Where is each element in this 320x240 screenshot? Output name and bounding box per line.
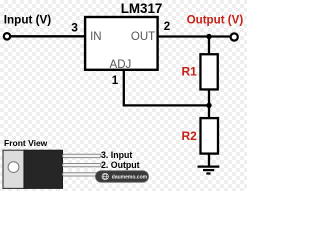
svg-text:ADJ: ADJ	[110, 59, 132, 71]
input terminal	[4, 33, 10, 39]
svg-text:2: 2	[164, 21, 170, 33]
resistor R2	[201, 118, 219, 154]
svg-text:3: 3	[71, 21, 78, 35]
ground	[198, 167, 220, 174]
wire ADJ pin down and right to divider node	[124, 70, 209, 106]
output terminal	[231, 33, 238, 40]
TO-220 pin 2 lead	[63, 164, 102, 167]
svg-text:daumemo.com: daumemo.com	[112, 174, 148, 180]
svg-text:OUT: OUT	[131, 31, 155, 43]
TO-220 package tab	[3, 150, 24, 188]
svg-text:1: 1	[112, 75, 119, 87]
svg-text:R1: R1	[181, 65, 197, 79]
svg-text:R2: R2	[181, 129, 197, 143]
wire OUT pin to output terminal	[158, 35, 230, 37]
resistor R1	[200, 54, 217, 89]
svg-text:IN: IN	[90, 31, 102, 43]
wire input to IN pin	[11, 35, 85, 37]
TO-220 pin 1 lead	[63, 173, 102, 176]
TO-220 package body	[24, 150, 63, 188]
TO-220 mounting hole	[8, 162, 19, 173]
svg-text:Front View: Front View	[4, 138, 48, 148]
node ADJ junction	[206, 103, 211, 108]
svg-text:Output (V): Output (V)	[187, 14, 244, 27]
svg-text:LM317: LM317	[121, 1, 163, 16]
svg-text:3. Input: 3. Input	[101, 150, 132, 160]
svg-text:Input (V): Input (V)	[4, 14, 51, 27]
watermark badge daumemo.com	[96, 171, 149, 182]
TO-220 pin 3 lead	[63, 154, 102, 157]
node output junction	[206, 34, 211, 39]
wire output branch down through R1 R2 to ground	[208, 37, 210, 167]
op-amp U1 LM317 body	[85, 17, 158, 70]
